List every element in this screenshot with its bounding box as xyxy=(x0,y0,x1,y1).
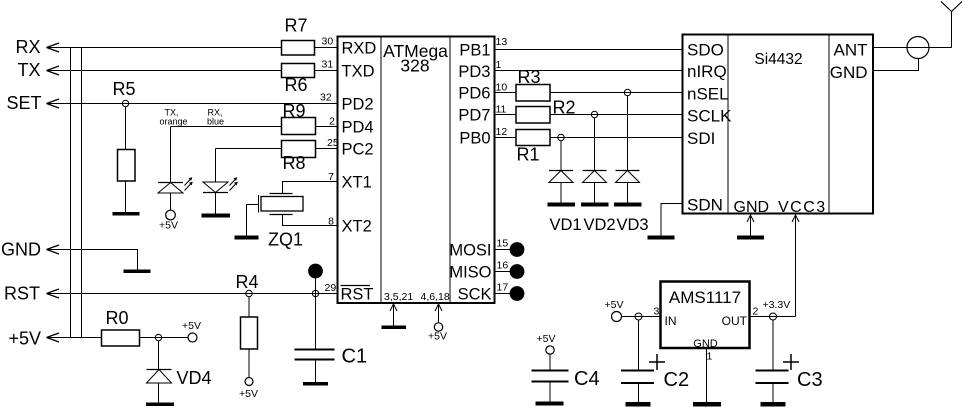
pin PD2 xyxy=(342,96,374,114)
capacitor C2 xyxy=(621,320,689,402)
node TX xyxy=(17,60,59,80)
svg-text:RXD: RXD xyxy=(342,40,377,58)
svg-text:+5V: +5V xyxy=(182,320,201,332)
op IC U1 ATMega328 body xyxy=(338,37,495,304)
wire RX xyxy=(47,47,282,49)
svg-text:C2: C2 xyxy=(664,369,690,391)
svg-text:R8: R8 xyxy=(282,153,305,173)
resistor R4 xyxy=(235,272,258,377)
wire PB1 to SDO xyxy=(495,36,683,50)
pin VCC3 bottom xyxy=(778,199,827,216)
pin MISO xyxy=(449,264,491,282)
svg-text:29: 29 xyxy=(325,282,337,294)
svg-text:SET: SET xyxy=(6,93,41,113)
svg-text:+5V: +5V xyxy=(605,299,624,311)
resistor R3 xyxy=(495,67,683,101)
svg-text:SCLK: SCLK xyxy=(687,107,732,126)
diode VD1 xyxy=(549,141,573,203)
test point RST xyxy=(308,264,323,350)
svg-text:VD2: VD2 xyxy=(584,216,616,234)
capacitor C3 xyxy=(756,320,823,402)
wire TX xyxy=(47,70,282,72)
svg-text:VD3: VD3 xyxy=(617,216,649,234)
svg-text:ANT: ANT xyxy=(834,41,868,60)
pin nIRQ xyxy=(687,62,727,81)
svg-text:VD1: VD1 xyxy=(550,216,582,234)
svg-text:+5V: +5V xyxy=(159,220,178,232)
svg-text:1: 1 xyxy=(707,351,713,363)
svg-text:R7: R7 xyxy=(284,16,307,36)
pin SDO xyxy=(687,41,724,60)
pin TXD xyxy=(342,63,375,81)
wire GND xyxy=(47,250,138,270)
resistor R0 xyxy=(102,308,189,346)
svg-text:MISO: MISO xyxy=(449,264,491,282)
LED RX blue xyxy=(203,108,282,214)
svg-text:nIRQ: nIRQ xyxy=(687,62,727,81)
svg-text:17: 17 xyxy=(497,282,509,294)
antenna xyxy=(941,2,962,48)
svg-text:XT1: XT1 xyxy=(342,174,372,192)
svg-text:PD4: PD4 xyxy=(342,119,374,137)
crystal ZQ1 xyxy=(247,171,338,250)
svg-text:4,6,18: 4,6,18 xyxy=(421,291,450,303)
svg-text:C3: C3 xyxy=(797,369,823,391)
svg-text:+5V: +5V xyxy=(537,333,556,345)
ground pin 3,5,21 xyxy=(382,326,407,330)
resistor R8 xyxy=(282,137,339,173)
ground C4 xyxy=(536,402,564,406)
svg-text:3: 3 xyxy=(654,306,660,318)
pin 3,5,21 ground xyxy=(384,291,413,326)
svg-text:IN: IN xyxy=(665,314,677,328)
svg-text:7: 7 xyxy=(328,171,334,183)
node junction C2 xyxy=(635,313,642,320)
pin RXD xyxy=(342,40,377,58)
ground SDN xyxy=(648,236,675,240)
node junction VD2 xyxy=(591,111,597,117)
svg-text:RST: RST xyxy=(4,284,40,304)
svg-text:TX: TX xyxy=(17,60,40,80)
wire SET to PD2 xyxy=(47,103,338,105)
ground AMS GND xyxy=(693,402,721,407)
pin number 32 PD2 xyxy=(320,92,332,104)
svg-text:PB1: PB1 xyxy=(459,42,490,60)
svg-text:C1: C1 xyxy=(342,346,368,368)
svg-text:1: 1 xyxy=(496,59,502,71)
terminal +5V AMS input xyxy=(605,299,624,322)
svg-text:SCK: SCK xyxy=(458,286,492,304)
pin GND right xyxy=(830,63,868,82)
ground R5 xyxy=(113,212,140,216)
ground C1 xyxy=(303,382,328,386)
node GND xyxy=(1,240,59,260)
node junction R0/VD4 xyxy=(155,334,161,340)
ground VD4 xyxy=(146,403,174,407)
resistor R9 xyxy=(282,101,338,135)
ground ZQ1 xyxy=(235,236,259,240)
wire OUT to +3.3V xyxy=(750,299,796,317)
wire PD3 to nIRQ xyxy=(495,59,683,71)
svg-text:Si4432: Si4432 xyxy=(754,51,802,68)
svg-text:orange: orange xyxy=(160,117,188,127)
label VD2 xyxy=(584,216,616,234)
pin PD3 xyxy=(458,63,490,81)
svg-text:RST: RST xyxy=(341,286,374,304)
svg-text:+3.3V: +3.3V xyxy=(763,299,791,311)
svg-text:SDI: SDI xyxy=(687,129,715,148)
pin PC2 xyxy=(342,141,374,159)
ground LED RX xyxy=(202,214,231,218)
svg-text:13: 13 xyxy=(496,36,508,48)
node RST xyxy=(4,284,59,304)
svg-text:TXD: TXD xyxy=(342,63,375,81)
ground C2 xyxy=(626,402,651,407)
svg-text:32: 32 xyxy=(320,92,332,104)
svg-text:30: 30 xyxy=(322,36,334,48)
label VD3 xyxy=(617,216,649,234)
wire +5V to IN xyxy=(622,316,661,318)
resistor R6 xyxy=(282,59,338,96)
svg-text:2: 2 xyxy=(753,306,759,318)
resistor R1 xyxy=(495,126,683,165)
label VD1 xyxy=(550,216,582,234)
pin GND bottom xyxy=(734,199,770,216)
pin SDN xyxy=(687,196,723,215)
svg-text:31: 31 xyxy=(322,59,334,71)
svg-text:GND: GND xyxy=(693,338,718,350)
svg-text:MOSI: MOSI xyxy=(449,242,491,260)
wire SDN to ground xyxy=(661,204,683,236)
diode VD2 xyxy=(583,118,607,203)
test point MISO xyxy=(495,260,525,279)
node junction VD3 xyxy=(624,89,630,95)
wire VCC3 to +3.3V rail xyxy=(792,215,799,317)
svg-text:PD6: PD6 xyxy=(458,85,490,103)
pin MOSI xyxy=(449,242,491,260)
svg-text:11: 11 xyxy=(496,104,507,116)
svg-text:R1: R1 xyxy=(516,145,539,165)
antenna connector circle xyxy=(907,37,929,59)
svg-text:GND: GND xyxy=(830,63,868,82)
pin XT1 xyxy=(342,174,372,192)
ground VD1 xyxy=(548,203,576,207)
pin PB0 xyxy=(459,130,490,148)
diode VD4 xyxy=(147,341,212,403)
svg-text:PD3: PD3 xyxy=(458,63,490,81)
svg-text:12: 12 xyxy=(496,126,508,138)
svg-text:R0: R0 xyxy=(105,308,128,328)
test point MOSI xyxy=(495,238,525,257)
svg-text:R4: R4 xyxy=(235,272,258,292)
node junction VD1 xyxy=(558,134,564,140)
wire AMS GND pin xyxy=(706,349,708,402)
svg-text:C4: C4 xyxy=(574,368,600,390)
terminal +5V under R4 xyxy=(239,378,258,401)
op IC U2 Si4432 body xyxy=(683,35,874,214)
node junction C3 xyxy=(770,313,777,320)
pin PD6 xyxy=(458,85,490,103)
svg-text:10: 10 xyxy=(496,82,508,94)
capacitor C1 xyxy=(295,346,368,383)
pin RST with overline xyxy=(341,286,374,304)
node junction R4 on RST xyxy=(246,290,252,296)
svg-text:15: 15 xyxy=(497,238,509,250)
pin nSEL xyxy=(687,85,729,104)
svg-text:RX: RX xyxy=(15,37,40,57)
svg-text:+5V: +5V xyxy=(239,388,258,400)
node RX xyxy=(15,37,59,57)
svg-text:PB0: PB0 xyxy=(459,130,490,148)
ground Si4432 GND pin xyxy=(737,236,764,240)
svg-text:16: 16 xyxy=(497,260,509,272)
ground VD2 xyxy=(581,203,609,207)
pin XT2 xyxy=(342,218,372,236)
pin ANT xyxy=(834,41,868,60)
svg-text:nSEL: nSEL xyxy=(687,85,729,104)
diode VD3 xyxy=(616,96,640,203)
svg-text:GND: GND xyxy=(734,199,770,216)
svg-text:3,5,21: 3,5,21 xyxy=(384,291,413,303)
svg-text:R6: R6 xyxy=(284,75,307,95)
svg-text:VCC3: VCC3 xyxy=(778,199,827,216)
svg-text:+5V: +5V xyxy=(8,329,41,349)
wire GND right to connector xyxy=(874,59,919,71)
capacitor C4 xyxy=(532,333,600,402)
resistor R2 xyxy=(495,98,683,124)
terminal +5V right of R0 xyxy=(182,320,201,342)
node junction pin29 xyxy=(312,282,336,297)
wire RST to pin 29 xyxy=(47,293,338,295)
ground C3 xyxy=(761,402,786,407)
svg-text:PD2: PD2 xyxy=(342,96,374,114)
pin 4,6,18 +5V xyxy=(421,291,450,343)
LED TX orange xyxy=(158,108,282,211)
svg-text:ZQ1: ZQ1 xyxy=(268,230,303,250)
node +5V xyxy=(8,329,59,349)
terminal +5V under LED TX xyxy=(159,210,178,231)
svg-text:PC2: PC2 xyxy=(342,141,374,159)
svg-text:+5V: +5V xyxy=(428,331,447,343)
svg-text:VD4: VD4 xyxy=(177,368,212,388)
pin SDI xyxy=(687,129,715,148)
wire bus line 1 xyxy=(70,48,72,338)
test point SCK xyxy=(495,282,525,301)
svg-text:SDN: SDN xyxy=(687,196,723,215)
svg-text:R5: R5 xyxy=(112,79,135,99)
svg-text:OUT: OUT xyxy=(722,314,748,328)
node SET xyxy=(6,93,59,113)
pin PD4 xyxy=(342,119,374,137)
pin SCLK xyxy=(687,107,732,126)
pin SCK xyxy=(458,286,492,304)
pin PB1 xyxy=(459,42,490,60)
wire +5V to R0 xyxy=(47,337,102,339)
svg-text:XT2: XT2 xyxy=(342,218,372,236)
ground GND rail xyxy=(124,270,151,274)
resistor R5 xyxy=(112,79,135,212)
op IC U3 AMS1117 body xyxy=(654,282,759,363)
svg-text:2: 2 xyxy=(329,116,335,128)
pin PD7 xyxy=(458,107,490,125)
svg-text:PD7: PD7 xyxy=(458,107,490,125)
svg-text:blue: blue xyxy=(207,117,224,127)
svg-text:8: 8 xyxy=(328,216,334,228)
ground VD3 xyxy=(614,203,642,207)
wire GND pin to ground xyxy=(747,215,754,236)
svg-text:328: 328 xyxy=(400,56,429,76)
resistor R7 xyxy=(282,16,338,56)
svg-text:SDO: SDO xyxy=(687,41,724,60)
wire ANT xyxy=(874,47,952,49)
svg-text:AMS1117: AMS1117 xyxy=(669,288,741,307)
wire bus line 2 xyxy=(81,48,83,338)
svg-text:GND: GND xyxy=(1,240,41,260)
